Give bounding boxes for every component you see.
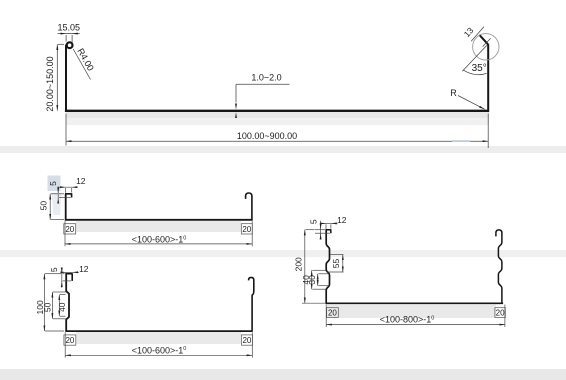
svg-text:50: 50 [43, 302, 53, 312]
svg-text:5: 5 [48, 181, 58, 186]
P2 top lip and tab [65, 273, 72, 281]
svg-text:30: 30 [307, 275, 317, 285]
background scan band below profile3 web [327, 305, 496, 319]
leader R4.00 [73, 49, 90, 80]
dimension 200 (P3) [302, 230, 325, 304]
svg-text:<100-800>-10: <100-800>-10 [380, 315, 435, 325]
svg-text:200: 200 [294, 257, 304, 271]
dimension 40 (P3) [312, 270, 326, 289]
background scan band bottom of page [0, 369, 566, 380]
svg-text:5: 5 [49, 267, 59, 272]
svg-text:20: 20 [496, 309, 505, 318]
boxed dimension 20 left (P3) [327, 308, 339, 318]
P1 bottom web [65, 219, 253, 221]
svg-text:20.00~150.00: 20.00~150.00 [45, 56, 55, 111]
background scan band below top web [66, 112, 489, 118]
dimension 30 (P3) [318, 274, 329, 286]
P0 left top curl R4.00 [67, 42, 73, 48]
svg-text:12: 12 [79, 264, 89, 274]
P2 right wall with S-curl [249, 277, 254, 330]
angle dimension 35deg [462, 45, 487, 74]
P2 left wall with rib [66, 274, 69, 331]
P2 bottom web [65, 330, 252, 332]
dimension 5 (P2) [62, 268, 71, 288]
dimension 50 (P2) [52, 292, 65, 319]
svg-text:13: 13 [462, 25, 476, 39]
background scan band full width under profile1 [0, 250, 566, 257]
dimension 12 (P2) [62, 271, 79, 273]
faint blue scan artifact on dimension line [452, 140, 470, 142]
svg-text:20: 20 [242, 225, 251, 234]
svg-text:5: 5 [308, 219, 318, 224]
boxed dimension 20 right (P3) [495, 308, 505, 318]
boxed dimension 20 left (P1) [64, 224, 76, 234]
svg-text:<100-600>-10: <100-600>-10 [132, 235, 187, 245]
dimension 55 (P3) [327, 255, 344, 272]
dimension 1.0~2.0 thickness [236, 84, 290, 118]
P0 bottom web [65, 110, 489, 112]
svg-text:100.00~900.00: 100.00~900.00 [237, 131, 297, 141]
svg-text:12: 12 [76, 176, 86, 186]
svg-text:20: 20 [242, 336, 251, 345]
dimension 5 (P3) [315, 221, 330, 239]
svg-text:35°: 35° [472, 63, 487, 74]
dimension 15.05 [58, 34, 80, 43]
background scan band below profile1 web [76, 221, 241, 232]
svg-text:<100-600>-10: <100-600>-10 [132, 345, 187, 355]
boxed dimension 20 right (P1) [241, 224, 252, 234]
dimension 100 (P2) [44, 274, 64, 331]
P0 left wall [65, 45, 67, 111]
bottom dimension <100-600>-1 (P1) [65, 221, 252, 246]
svg-text:R4.00: R4.00 [75, 47, 95, 73]
bottom dimension <100-800>-1 (P3) [326, 305, 505, 328]
svg-text:55: 55 [331, 259, 341, 269]
svg-text:15.05: 15.05 [58, 23, 81, 33]
svg-text:1.0~2.0: 1.0~2.0 [251, 73, 281, 83]
dimension 12 (P3) [322, 223, 338, 229]
svg-text:R: R [450, 88, 457, 98]
dimension 13 on flange [471, 27, 490, 47]
svg-text:20: 20 [65, 336, 74, 345]
dimension 100.00~900.00 [66, 114, 488, 149]
svg-text:50: 50 [38, 201, 48, 211]
P3 left wall with two ribs [326, 230, 329, 303]
P1 top lip and tab [65, 193, 72, 197]
P3 top lip and tab [326, 229, 331, 233]
svg-text:12: 12 [337, 215, 347, 225]
bottom dimension <100-600>-1 (P2) [65, 332, 252, 357]
svg-text:40: 40 [57, 302, 67, 312]
P0 right flange 35deg [479, 35, 488, 45]
P0 right wall [487, 44, 489, 110]
P3 right wall with curl and two ribs [496, 230, 502, 303]
P1 left wall [65, 194, 67, 220]
background scan band below profile2 web [76, 332, 241, 344]
svg-text:20: 20 [328, 309, 337, 318]
dimension 5 (P1) [58, 186, 70, 202]
detail circle top right [473, 34, 499, 60]
dimension 20.00~150.00 [57, 44, 64, 110]
boxed dimension 20 right (P2) [241, 335, 252, 345]
background scan band full width under top drawing [0, 146, 566, 153]
dimension 40 (P2) [59, 295, 65, 317]
highlight box behind label 5 of profile1 [48, 176, 61, 192]
boxed dimension 20 left (P2) [64, 335, 76, 345]
svg-text:20: 20 [65, 225, 74, 234]
P1 right wall with top curl [246, 193, 252, 220]
P3 bottom web [325, 302, 503, 304]
leader R bottom right corner [458, 96, 485, 110]
dimension 12 (P1) [58, 187, 77, 193]
dimension 50 (P1) [50, 194, 64, 220]
